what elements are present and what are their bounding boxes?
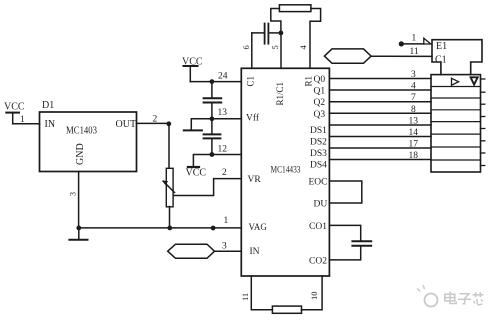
- node test point pin 1 (EOC out): [399, 41, 404, 46]
- svg-text:DS3: DS3: [310, 149, 327, 159]
- voltage reference U D1 MC1403 box: [40, 112, 137, 172]
- junction pin5/cap: [279, 31, 284, 36]
- wire potentiometer wiper to VR pin2: [174, 179, 242, 196]
- wire junction to pin 13: [212, 118, 241, 120]
- node 2 junction: [166, 121, 171, 126]
- A/D converter U2 MC14433 box: [241, 68, 329, 276]
- buffer triangle at E1 input: [424, 38, 431, 44]
- wire pin 10 bottom: [302, 276, 323, 310]
- display right stubs: [481, 79, 485, 166]
- potentiometer arrow: [162, 180, 174, 192]
- svg-text:17: 17: [409, 140, 419, 150]
- wire DS4 / pin 18 of display: [329, 159, 431, 161]
- wire junction to pin 12: [212, 154, 241, 156]
- wire VCC to pin 24: [190, 81, 241, 83]
- svg-text:MC1403: MC1403: [66, 126, 97, 137]
- wire pin1 to E1: [401, 43, 424, 45]
- junction pot bottom: [167, 226, 172, 231]
- svg-text:10: 10: [309, 292, 319, 301]
- display row separators: [431, 87, 481, 161]
- svg-text:DS2: DS2: [310, 138, 327, 148]
- wire Q0 / pin 3 of display: [329, 78, 431, 80]
- svg-text:Q1: Q1: [314, 87, 326, 97]
- svg-text:3: 3: [222, 242, 227, 252]
- VCC symbol (left, pin 1 of D1): [6, 113, 19, 124]
- svg-text:VAG: VAG: [249, 222, 268, 232]
- svg-text:3: 3: [69, 192, 78, 196]
- resistor R1 (clock) body: [279, 5, 311, 12]
- junction pin24/cap: [210, 79, 215, 84]
- svg-text:IN: IN: [250, 247, 260, 257]
- wire D1 OUT to node 2: [137, 122, 169, 124]
- ground symbol at pin 13: [184, 119, 212, 131]
- wire EOC to DU feedback loop: [329, 181, 361, 203]
- svg-text:C1: C1: [435, 55, 447, 66]
- latch/driver box E1 C1: [432, 40, 482, 75]
- capacitor C (VSS-VEE): [204, 119, 221, 155]
- svg-text:DU: DU: [314, 199, 328, 209]
- svg-text:VCC: VCC: [182, 57, 203, 68]
- watermark logo circle: [417, 285, 438, 307]
- wire potentiometer bottom to VAG line: [169, 207, 171, 228]
- node GND junction: [76, 226, 81, 231]
- wire hexagon to IN pin: [215, 250, 242, 252]
- svg-text:R1/C1: R1/C1: [275, 82, 285, 106]
- svg-text:VR: VR: [248, 175, 262, 185]
- watermark text zi: [458, 294, 471, 304]
- svg-text:13: 13: [409, 117, 419, 127]
- svg-text:IN: IN: [45, 119, 56, 130]
- svg-text:8: 8: [411, 105, 416, 115]
- svg-text:Q3: Q3: [314, 110, 326, 120]
- capacitor C (CO1-CO2): [329, 225, 371, 260]
- junction node on VAG: [211, 226, 216, 231]
- svg-text:13: 13: [218, 108, 228, 118]
- display down triangle: [471, 77, 478, 84]
- watermark text xin: [473, 292, 484, 305]
- wire pin 6 (C1) top: [251, 33, 253, 68]
- wire Q2 / pin 7 of display: [329, 101, 431, 103]
- display block (LED module): [431, 75, 481, 172]
- wire VAG net: [79, 227, 242, 229]
- wire pin1 to D1 IN: [13, 123, 40, 125]
- VCC symbol (pin 12): [188, 155, 212, 168]
- potentiometer RP body: [166, 168, 173, 207]
- svg-text:VCC: VCC: [4, 102, 25, 113]
- svg-text:VCC: VCC: [186, 168, 207, 179]
- svg-text:5: 5: [270, 45, 280, 49]
- svg-text:1: 1: [20, 115, 25, 125]
- svg-text:1: 1: [224, 216, 229, 226]
- wire resistor R1 right to pin 4: [310, 9, 321, 69]
- junction pin13: [210, 116, 215, 121]
- svg-text:6: 6: [241, 45, 251, 49]
- wire node2 down to potentiometer: [168, 124, 170, 168]
- junction pin12: [210, 152, 215, 157]
- svg-text:1: 1: [412, 34, 417, 44]
- svg-text:18: 18: [409, 151, 419, 161]
- wire Q1 / pin 4 of display: [329, 89, 431, 91]
- svg-text:CO2: CO2: [309, 257, 327, 267]
- VCC symbol (pin 24): [184, 66, 198, 82]
- wire junction up to resistor R1 left: [271, 9, 281, 33]
- svg-text:GND: GND: [75, 143, 86, 165]
- svg-text:R1: R1: [304, 76, 314, 87]
- svg-text:EOC: EOC: [309, 178, 328, 188]
- resistor R (clock osc) body: [272, 306, 301, 313]
- svg-text:14: 14: [409, 128, 419, 138]
- wire hexagon to C1 pin 11: [371, 55, 432, 57]
- svg-text:Q2: Q2: [314, 98, 326, 108]
- wire Q3 / pin 8 of display: [329, 112, 431, 114]
- svg-text:CO1: CO1: [309, 222, 327, 232]
- svg-text:D1: D1: [42, 100, 54, 111]
- svg-text:OUT: OUT: [116, 119, 137, 130]
- svg-text:Q0: Q0: [314, 75, 326, 85]
- svg-text:2: 2: [153, 115, 158, 125]
- wire DS3 / pin 17 of display: [329, 147, 431, 149]
- wire pin 5 top: [280, 33, 282, 68]
- svg-text:11: 11: [410, 47, 419, 57]
- svg-text:4: 4: [411, 82, 416, 92]
- display clock triangle: [452, 78, 459, 85]
- svg-text:11: 11: [240, 293, 250, 301]
- watermark text dian: [445, 292, 457, 304]
- svg-text:3: 3: [411, 70, 416, 80]
- svg-text:MC14433: MC14433: [271, 165, 301, 175]
- svg-text:E1: E1: [436, 41, 447, 52]
- svg-text:12: 12: [218, 145, 228, 155]
- svg-text:7: 7: [411, 93, 416, 103]
- ground symbol under D1: [69, 228, 87, 240]
- svg-text:2: 2: [222, 168, 227, 178]
- hexagon terminal (clock pin 11): [324, 49, 371, 63]
- wire pin 11 bottom: [251, 276, 272, 310]
- wire D1 GND pin 3 down: [78, 172, 80, 228]
- svg-text:DS4: DS4: [310, 161, 327, 171]
- svg-text:DS1: DS1: [310, 126, 327, 136]
- wire DS1 / pin 13 of display: [329, 124, 431, 126]
- svg-text:C1: C1: [246, 76, 256, 87]
- svg-text:24: 24: [218, 72, 228, 82]
- wire DS2 / pin 14 of display: [329, 136, 431, 138]
- capacitor C1 (clock): [252, 24, 281, 44]
- input terminal hexagon (IN pin 3): [168, 244, 215, 258]
- capacitor C (VDD-VSS): [204, 82, 222, 119]
- svg-text:Vff: Vff: [246, 113, 260, 124]
